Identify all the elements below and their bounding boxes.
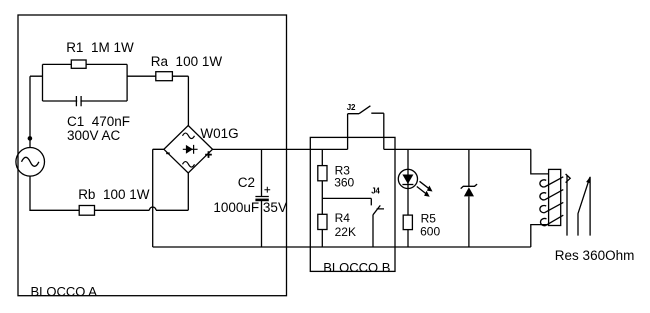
svg-text:W01G: W01G bbox=[200, 126, 238, 141]
svg-text:C1 470nF: C1 470nF bbox=[67, 114, 130, 129]
svg-text:J2: J2 bbox=[347, 103, 356, 112]
svg-text:300V AC: 300V AC bbox=[67, 128, 121, 143]
svg-text:BLOCCO B: BLOCCO B bbox=[323, 260, 390, 275]
svg-text:R1 1M 1W: R1 1M 1W bbox=[66, 40, 134, 55]
svg-text:360: 360 bbox=[334, 176, 354, 190]
svg-text:J4: J4 bbox=[371, 186, 380, 195]
svg-text:C2: C2 bbox=[238, 175, 255, 190]
svg-text:Rb 100 1W: Rb 100 1W bbox=[78, 187, 150, 202]
svg-text:600: 600 bbox=[420, 225, 440, 239]
svg-text:Ra 100 1W: Ra 100 1W bbox=[151, 54, 223, 69]
svg-text:1000uF 35V: 1000uF 35V bbox=[213, 200, 287, 215]
svg-text:Res 360Ohm: Res 360Ohm bbox=[555, 248, 635, 263]
svg-text:22K: 22K bbox=[335, 225, 356, 239]
svg-text:R5: R5 bbox=[421, 212, 437, 226]
svg-text:BLOCCO A: BLOCCO A bbox=[31, 284, 98, 299]
svg-text:R4: R4 bbox=[335, 211, 351, 225]
